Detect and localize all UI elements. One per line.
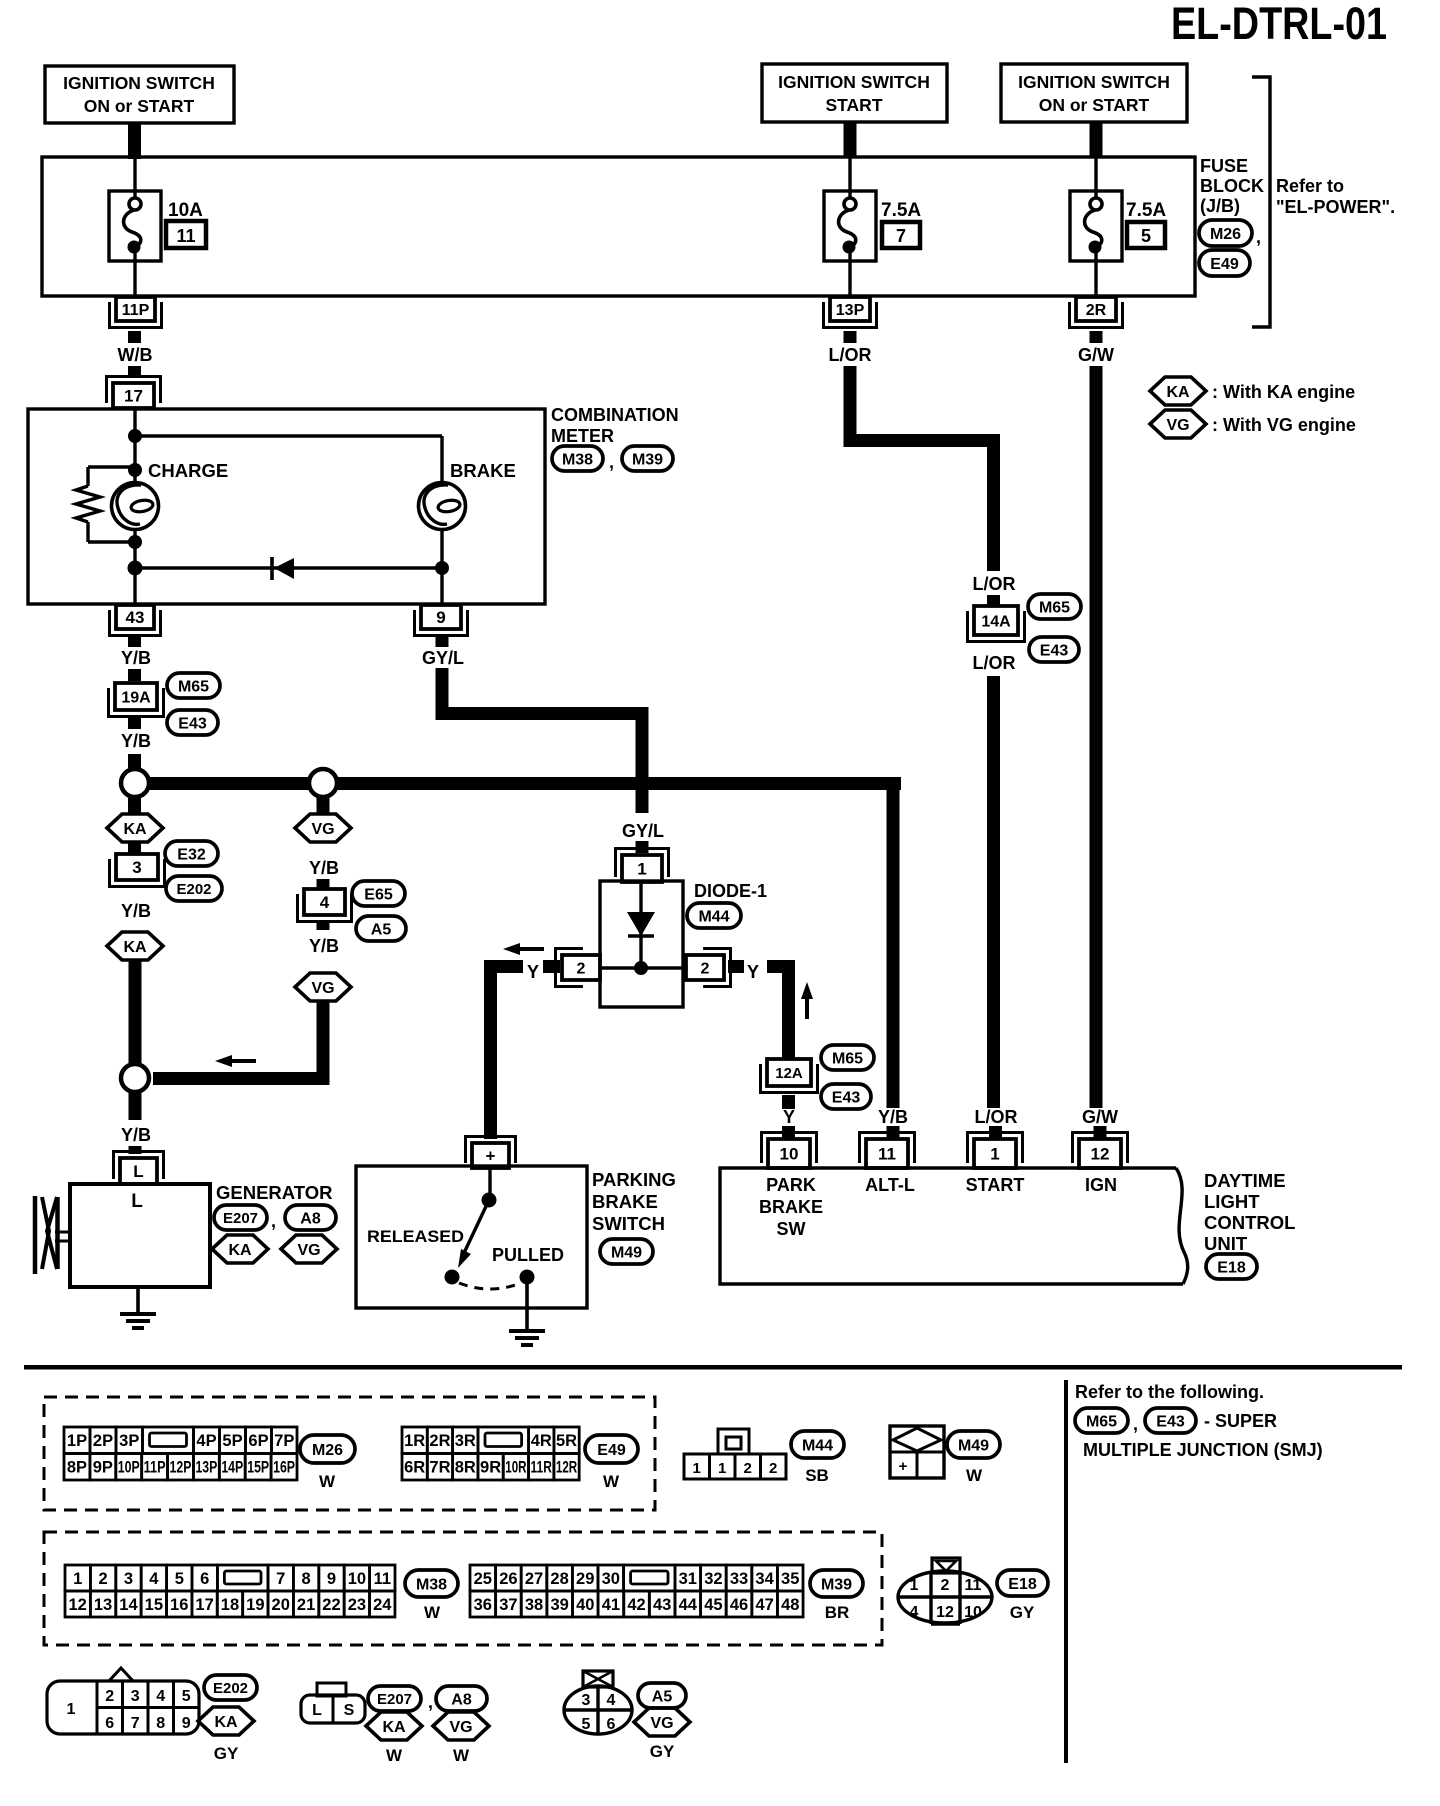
wire stub below junction circle 1 [128, 798, 141, 813]
connector 10 at unit [768, 1139, 810, 1168]
svg-text:33: 33 [730, 1570, 748, 1588]
svg-text:16: 16 [170, 1596, 188, 1614]
connector ref E18 legend [997, 1570, 1048, 1596]
daytime light control unit box [720, 1168, 1183, 1284]
svg-text:L/OR: L/OR [975, 1107, 1018, 1127]
svg-text:G/W: G/W [1082, 1107, 1118, 1127]
svg-text:Y/B: Y/B [121, 648, 151, 668]
connector 2 right at diode [686, 955, 724, 980]
svg-text:12: 12 [1091, 1145, 1110, 1164]
junction circle 2 [309, 769, 337, 797]
svg-text:2: 2 [105, 1688, 114, 1705]
svg-text:METER: METER [551, 426, 614, 446]
fuse F1 number box 11 [166, 221, 206, 248]
svg-text:39: 39 [550, 1596, 568, 1614]
svg-text:UNIT: UNIT [1204, 1233, 1248, 1254]
svg-text:IGNITION SWITCH: IGNITION SWITCH [1018, 72, 1170, 92]
svg-text:3: 3 [582, 1692, 591, 1709]
hexagon VG legend A8 [433, 1712, 489, 1740]
fuse block box [42, 157, 1195, 296]
svg-text:38: 38 [525, 1596, 543, 1614]
fuse F2 number box 7 [882, 222, 920, 248]
svg-text:A5: A5 [371, 921, 392, 938]
svg-text:A8: A8 [300, 1210, 321, 1227]
connector 2R [1076, 297, 1116, 321]
connector E202 legend drawing [109, 1668, 133, 1681]
svg-text:34: 34 [755, 1570, 774, 1588]
svg-text:M26: M26 [1210, 226, 1241, 243]
parking brake switch arm with arrow [464, 1200, 489, 1253]
wire G/W from 2R down to daytime unit IGN [1090, 366, 1103, 1108]
wire stub right of diode pin 2 [728, 960, 744, 973]
svg-text:27: 27 [525, 1570, 543, 1588]
svg-text:E18: E18 [1217, 1259, 1246, 1276]
parking brake pulled contact dot [520, 1270, 535, 1285]
wire Y from diode right down to 12A [767, 960, 795, 973]
wire stub above diode pin 1 [636, 841, 649, 853]
svg-text:CONTROL: CONTROL [1204, 1212, 1295, 1233]
fuse F1 10A [109, 191, 161, 261]
svg-text:1: 1 [67, 1701, 76, 1718]
svg-text:14: 14 [119, 1596, 138, 1614]
legend hexagon KA [1150, 377, 1206, 405]
connector 11 at unit [866, 1139, 908, 1168]
wire stub above connector 4 [317, 879, 330, 889]
wire stub above 19A [128, 669, 141, 681]
svg-text:E65: E65 [364, 886, 393, 903]
svg-text:7: 7 [276, 1570, 285, 1588]
svg-text:23: 23 [348, 1596, 366, 1614]
svg-text:Y/B: Y/B [121, 731, 151, 751]
svg-text:,: , [609, 452, 614, 472]
svg-text:11: 11 [374, 1570, 391, 1588]
svg-text:5: 5 [175, 1570, 184, 1588]
svg-text:A5: A5 [652, 1688, 673, 1705]
wire inside meter left vertical [133, 409, 136, 604]
svg-text:"EL-POWER".: "EL-POWER". [1276, 197, 1395, 217]
svg-text:31: 31 [679, 1570, 697, 1588]
svg-text:Y/B: Y/B [309, 858, 339, 878]
svg-text:+: + [899, 1458, 908, 1475]
svg-text:35: 35 [781, 1570, 799, 1588]
svg-text:20: 20 [272, 1596, 290, 1614]
svg-text:IGNITION SWITCH: IGNITION SWITCH [778, 72, 930, 92]
svg-text:5P: 5P [222, 1432, 242, 1450]
wire stub below KA hexagon [128, 843, 141, 854]
svg-text:E43: E43 [178, 715, 207, 732]
svg-text:2: 2 [577, 960, 586, 977]
svg-text:1R: 1R [404, 1432, 425, 1450]
connector ref E49 legend [585, 1435, 638, 1463]
svg-text:14P: 14P [221, 1459, 243, 1477]
svg-text:START: START [825, 95, 882, 115]
svg-text:E207: E207 [377, 1691, 412, 1708]
svg-text:4: 4 [910, 1604, 919, 1621]
svg-text:3P: 3P [119, 1432, 139, 1450]
wire stub below junction circle 3 [129, 1093, 142, 1120]
wire stub above unit pin 10 [782, 1126, 795, 1139]
connector ref E32 [165, 841, 218, 866]
svg-text:PARKING: PARKING [592, 1169, 676, 1190]
svg-text:19: 19 [246, 1596, 264, 1614]
svg-text:28: 28 [550, 1570, 568, 1588]
ignition switch box 3 ON or START [1001, 64, 1187, 122]
wire stub below connector 4 [317, 921, 330, 930]
svg-text:19A: 19A [121, 689, 151, 706]
svg-text:START: START [966, 1175, 1025, 1195]
ignition switch box 1 ON or START [45, 66, 234, 123]
wire stub above 14A [987, 595, 1000, 607]
junction dot top left [128, 429, 142, 443]
junction dot diode line left [128, 561, 143, 576]
parking brake switch internal wire [488, 1168, 491, 1200]
svg-text:L/OR: L/OR [829, 345, 872, 365]
svg-text:17: 17 [124, 387, 143, 406]
svg-text:,: , [1256, 227, 1261, 247]
svg-text:W: W [386, 1746, 403, 1765]
svg-text:8P: 8P [67, 1459, 87, 1477]
connector ref E43 at 12A [821, 1084, 871, 1109]
svg-text:M26: M26 [312, 1442, 343, 1459]
svg-text:Y: Y [527, 962, 539, 982]
svg-text:E43: E43 [1040, 642, 1069, 659]
svg-text:KA: KA [214, 1714, 238, 1731]
connector ref E49 [1199, 250, 1250, 276]
svg-text:Refer to: Refer to [1276, 176, 1344, 196]
junction dot charge top [128, 463, 142, 477]
svg-text:Y: Y [783, 1107, 795, 1127]
diode-1 body box [600, 881, 683, 1007]
bus wire Y/B horizontal [149, 777, 901, 790]
wire stub below 12A [782, 1095, 795, 1109]
SMJ connector 19A [115, 683, 157, 710]
wire KA branch down to junction circle 3 [129, 961, 142, 1065]
svg-text:,: , [271, 1211, 276, 1231]
connector ref M38 label [552, 446, 603, 471]
connector ref A5 legend [638, 1683, 686, 1708]
svg-text:2R: 2R [1086, 302, 1107, 319]
connector 43 [116, 605, 154, 629]
hexagon VG at generator [281, 1235, 337, 1263]
svg-text:L: L [312, 1702, 322, 1719]
svg-text:FUSE: FUSE [1200, 156, 1248, 176]
svg-text:3R: 3R [455, 1432, 476, 1450]
connector grid M39 [470, 1565, 496, 1591]
hexagon KA legend E207 [366, 1712, 422, 1740]
connector grid E49 [402, 1427, 427, 1454]
connector ref M26 [1199, 220, 1252, 246]
connector ref M38 legend [405, 1570, 458, 1597]
svg-text:VG: VG [311, 980, 334, 997]
svg-text:24: 24 [373, 1596, 392, 1614]
svg-text:SB: SB [805, 1466, 829, 1485]
wire from ignition switch 2 to fuse block [844, 122, 857, 158]
parking brake switch box [356, 1166, 587, 1308]
svg-text:W: W [319, 1472, 336, 1491]
right bracket of fuse block [1252, 77, 1270, 327]
wire stub below 19A [128, 717, 141, 729]
svg-text:29: 29 [576, 1570, 594, 1588]
svg-text:30: 30 [602, 1570, 620, 1588]
svg-text:E207: E207 [223, 1210, 258, 1227]
svg-text:12: 12 [69, 1596, 87, 1614]
diode line inside meter [135, 566, 442, 569]
connector ref M65 legend [1075, 1408, 1128, 1433]
svg-text:RELEASED: RELEASED [367, 1227, 464, 1246]
connector 12 at unit [1079, 1139, 1121, 1168]
connector E207 legend drawing [317, 1683, 346, 1696]
svg-text:Y/B: Y/B [878, 1107, 908, 1127]
svg-text:M65: M65 [1086, 1413, 1117, 1430]
wire stub left of diode pin 2 [543, 960, 560, 973]
svg-text:VG: VG [297, 1242, 320, 1259]
svg-text:KA: KA [1166, 384, 1190, 401]
svg-text:7P: 7P [274, 1432, 294, 1450]
svg-text:M65: M65 [832, 1050, 863, 1067]
svg-text:2: 2 [769, 1460, 777, 1477]
svg-text:21: 21 [297, 1596, 315, 1614]
svg-text:L: L [131, 1191, 143, 1212]
svg-text:ON or START: ON or START [1039, 95, 1150, 115]
connector ref E202 legend [204, 1675, 257, 1700]
connector grid M38 [65, 1565, 90, 1591]
svg-text:SW: SW [777, 1219, 806, 1239]
svg-text:7.5A: 7.5A [881, 200, 921, 221]
parking brake released contact dot [445, 1270, 460, 1285]
svg-text:E43: E43 [832, 1089, 861, 1106]
svg-text:SWITCH: SWITCH [592, 1213, 665, 1234]
svg-text:8: 8 [156, 1715, 165, 1732]
wire L/OR from 14A to daytime unit START [987, 676, 1000, 1108]
svg-text:PULLED: PULLED [492, 1245, 564, 1265]
svg-text:W: W [966, 1466, 983, 1485]
svg-text:COMBINATION: COMBINATION [551, 405, 679, 425]
svg-text:1: 1 [990, 1145, 999, 1164]
svg-text:DIODE-1: DIODE-1 [694, 881, 767, 901]
svg-text:44: 44 [679, 1596, 698, 1614]
connector 11P [116, 297, 155, 321]
connector 2 left at diode [562, 955, 600, 980]
arrow up beside Y wire [801, 982, 813, 999]
svg-text:- SUPER: - SUPER [1204, 1411, 1277, 1431]
svg-text:W/B: W/B [118, 345, 153, 365]
svg-text:14A: 14A [981, 613, 1011, 630]
svg-text:4P: 4P [196, 1432, 216, 1450]
svg-text:9: 9 [182, 1715, 191, 1732]
svg-text:10A: 10A [168, 200, 203, 221]
hexagon KA at generator [212, 1235, 268, 1263]
svg-text:18: 18 [221, 1596, 239, 1614]
svg-text:4: 4 [607, 1692, 616, 1709]
connector ref A8 [285, 1205, 336, 1230]
connector ref M65 at 19A [167, 673, 220, 698]
svg-text:40: 40 [576, 1596, 594, 1614]
svg-text:BRAKE: BRAKE [592, 1191, 658, 1212]
svg-text:E43: E43 [1156, 1413, 1185, 1430]
svg-text:E49: E49 [1210, 256, 1239, 273]
svg-text:43: 43 [653, 1596, 671, 1614]
connector 4 [304, 889, 345, 915]
svg-text:GY/L: GY/L [422, 648, 464, 668]
svg-text:CHARGE: CHARGE [148, 460, 228, 481]
brake indicator lamp [419, 483, 466, 530]
svg-text:1: 1 [637, 860, 646, 879]
wire stub above 17 [128, 366, 141, 378]
svg-text:VG: VG [311, 821, 334, 838]
svg-text:13P: 13P [836, 302, 865, 319]
connector L at generator [120, 1158, 157, 1184]
svg-text:M38: M38 [562, 451, 593, 468]
wire stub below 11P [128, 331, 141, 343]
connector 9 [421, 605, 461, 629]
wire stub above unit pin 12 [1094, 1126, 1107, 1139]
svg-text:MULTIPLE JUNCTION (SMJ): MULTIPLE JUNCTION (SMJ) [1083, 1440, 1323, 1460]
svg-text:+: + [486, 1147, 496, 1166]
svg-text:VG: VG [449, 1719, 472, 1736]
svg-text:6R: 6R [404, 1459, 425, 1477]
svg-text:12A: 12A [775, 1065, 803, 1082]
connector ref E65 [352, 881, 405, 906]
svg-text:,: , [1133, 1414, 1138, 1434]
svg-text:32: 32 [704, 1570, 722, 1588]
connector ref E202 [166, 876, 222, 901]
svg-text:VG: VG [650, 1715, 673, 1732]
svg-text:E32: E32 [177, 846, 206, 863]
svg-text:16P: 16P [273, 1459, 295, 1477]
svg-text:ON or START: ON or START [84, 96, 195, 116]
wire stub above connector L [129, 1146, 142, 1154]
svg-text:W: W [603, 1472, 620, 1491]
svg-text:9R: 9R [480, 1459, 501, 1477]
connector 13P [830, 297, 870, 321]
bus corner down wire Y/B to ALT-L [887, 777, 900, 1108]
svg-text:1: 1 [910, 1577, 919, 1594]
svg-text:13: 13 [94, 1596, 112, 1614]
svg-text:: With KA engine: : With KA engine [1212, 382, 1355, 402]
connector 1 at unit [974, 1139, 1016, 1168]
svg-text:E49: E49 [597, 1442, 626, 1459]
svg-text:11: 11 [965, 1577, 982, 1594]
svg-text:GY: GY [650, 1742, 675, 1761]
arrow left above left Y wire [503, 943, 520, 955]
svg-text:9P: 9P [93, 1459, 113, 1477]
svg-text:12: 12 [936, 1604, 954, 1621]
svg-text:M38: M38 [416, 1576, 447, 1593]
wire VG branch down and left to junction circle 3 [317, 1002, 330, 1085]
connector ref M26 legend [300, 1435, 355, 1463]
svg-text:: With VG engine: : With VG engine [1212, 415, 1356, 435]
svg-text:8: 8 [302, 1570, 311, 1588]
svg-text:3: 3 [132, 858, 141, 877]
hexagon VG upper [295, 814, 351, 842]
svg-text:17: 17 [195, 1596, 213, 1614]
svg-text:6: 6 [105, 1715, 114, 1732]
wire stub below 43 [128, 636, 141, 647]
svg-text:DAYTIME: DAYTIME [1204, 1170, 1286, 1191]
svg-text:5: 5 [182, 1688, 191, 1705]
svg-text:KA: KA [382, 1719, 406, 1736]
svg-text:7: 7 [896, 226, 906, 246]
separator line [24, 1365, 1402, 1370]
junction dot brake bottom [435, 561, 449, 575]
wire from ignition switch 3 to fuse block [1090, 122, 1103, 158]
svg-text:15P: 15P [247, 1459, 269, 1477]
svg-text:11: 11 [176, 226, 195, 246]
connector A5 legend drawing [583, 1671, 613, 1687]
wire from ignition switch 1 to fuse block [128, 123, 141, 159]
connector ref M39 legend [810, 1570, 863, 1597]
svg-text:2: 2 [99, 1570, 108, 1588]
svg-text:6: 6 [607, 1716, 616, 1733]
wire stub below 2R [1090, 331, 1103, 343]
connector ref E207 [214, 1205, 267, 1230]
svg-text:2P: 2P [93, 1432, 113, 1450]
ground below generator [136, 1287, 140, 1314]
svg-text:Y/B: Y/B [121, 901, 151, 921]
svg-text:2: 2 [941, 1577, 950, 1594]
connector M44 legend drawing [718, 1429, 749, 1454]
ignition switch box 2 START [762, 64, 947, 122]
parking brake dashed arc [459, 1283, 521, 1289]
svg-text:EL-DTRL-01: EL-DTRL-01 [1171, 0, 1387, 49]
wire L/OR from 13P down with jog right [844, 366, 857, 447]
svg-text:45: 45 [704, 1596, 722, 1614]
connector ref M65 at 12A [821, 1045, 874, 1070]
diode symbol inside meter [270, 557, 274, 580]
vertical divider line [1064, 1380, 1068, 1763]
svg-text:VG: VG [1166, 417, 1189, 434]
generator pulley symbol [33, 1196, 38, 1274]
svg-text:KA: KA [123, 821, 147, 838]
svg-text:4: 4 [320, 893, 330, 912]
svg-text:BR: BR [825, 1603, 850, 1622]
wire stub below junction circle 2 [317, 798, 330, 813]
diode symbol inside diode-1 [639, 883, 642, 936]
hexagon VG legend A5 [634, 1708, 690, 1736]
svg-text:E202: E202 [176, 881, 211, 898]
fuse F3 number box 5 [1127, 222, 1165, 248]
svg-text:M49: M49 [958, 1437, 989, 1454]
svg-text:5: 5 [1141, 226, 1151, 246]
connector ref E43 at 14A [1029, 637, 1079, 662]
svg-text:4R: 4R [531, 1432, 552, 1450]
wire inside meter right vertical [440, 436, 443, 604]
svg-text:11P: 11P [144, 1459, 166, 1477]
wire stub below 9 [436, 636, 449, 647]
svg-text:M39: M39 [821, 1576, 852, 1593]
SMJ connector 14A [974, 606, 1018, 635]
svg-text:PARK: PARK [766, 1175, 816, 1195]
connector ref A5 small [356, 916, 406, 941]
svg-text:9: 9 [327, 1570, 336, 1588]
fuse F2 7.5A [824, 191, 876, 261]
svg-text:22: 22 [322, 1596, 340, 1614]
junction circle 3 [121, 1064, 149, 1092]
wire stub below 13P [844, 331, 857, 343]
junction circle 1 [121, 769, 149, 797]
wire Y from diode to parking brake switch [484, 960, 523, 973]
connector ref M44 legend [791, 1431, 844, 1458]
svg-text:9: 9 [436, 608, 445, 627]
connector + at parking brake switch [472, 1143, 509, 1168]
svg-text:3: 3 [131, 1688, 140, 1705]
svg-text:Y/B: Y/B [309, 936, 339, 956]
junction dot inside diode-1 [634, 961, 648, 975]
arrow left on VG return wire [215, 1055, 232, 1067]
connector 3 [116, 854, 158, 880]
svg-text:W: W [424, 1603, 441, 1622]
svg-text:2R: 2R [429, 1432, 450, 1450]
